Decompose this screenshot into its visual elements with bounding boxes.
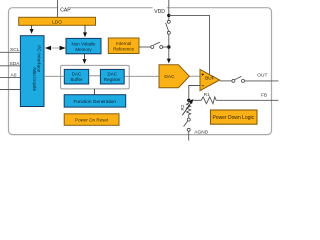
block Power On Reset	[64, 114, 119, 126]
arrowhead into I2C interface top	[30, 29, 34, 34]
wire container to DAC pentagon	[129, 75, 159, 77]
switch output (right circle)	[242, 79, 245, 82]
svg-text:Non Volatile: Non Volatile	[71, 42, 96, 47]
block Internal Reference	[108, 38, 139, 54]
wire I2C to DAC container	[44, 75, 61, 77]
switch internal reference (left circle)	[151, 46, 154, 49]
svg-text:A0: A0	[11, 73, 17, 79]
block I2C interface PMBus compatible	[20, 36, 44, 107]
node reference mux junction	[167, 45, 170, 48]
block LDO	[19, 17, 96, 25]
svg-text:I²C Interface: I²C Interface	[36, 45, 41, 73]
pin VDD label gap	[153, 5, 168, 14]
wire BUF feedback	[189, 86, 201, 101]
switch internal reference (right circle)	[160, 46, 163, 49]
svg-text:SCL: SCL	[10, 47, 20, 53]
switch VDD to DAC (lower circle)	[167, 31, 170, 34]
arrowhead into DAC top	[167, 59, 171, 64]
wire VDD switch to DAC arrow	[168, 34, 170, 59]
wire BUF output	[220, 80, 232, 82]
wire container right stub	[124, 75, 129, 77]
svg-text:OUT: OUT	[257, 73, 267, 79]
arrow through R2 (wiper)	[182, 103, 190, 115]
pin CAP label gap	[58, 4, 70, 13]
chip boundary	[9, 8, 272, 135]
block DAC Buffer	[64, 69, 88, 84]
wire DAC to BUF	[189, 75, 200, 77]
wire node to R1	[189, 99, 202, 101]
switch AGND (upper circle)	[187, 118, 190, 121]
svg-text:Power On Reset: Power On Reset	[75, 118, 109, 123]
wire VDD pin upper segment	[168, 0, 170, 20]
svg-text:AGND: AGND	[194, 129, 208, 135]
svg-text:DAC: DAC	[164, 74, 175, 80]
switch VDD to DAC (upper circle)	[167, 20, 170, 23]
svg-text:SDA: SDA	[10, 61, 21, 67]
svg-text:Reference: Reference	[113, 47, 134, 52]
switch VDD to DAC (blade)	[166, 23, 169, 31]
block Power Down Logic	[211, 110, 258, 124]
svg-text:LDO: LDO	[52, 20, 62, 26]
node VDD rail junction	[167, 14, 170, 17]
resistor R2 (adjustable)	[187, 100, 191, 118]
svg-text:DAC: DAC	[72, 71, 82, 76]
pin line SDA	[0, 65, 20, 67]
svg-text:BUF: BUF	[205, 75, 215, 80]
resistor R1	[201, 97, 216, 104]
wire to OUT pin	[245, 80, 279, 82]
block Non Volatile Memory	[66, 38, 101, 53]
wire R1 to FB pin	[216, 99, 278, 101]
svg-text:DAC: DAC	[108, 71, 118, 76]
pin line A1 (unlabeled)	[0, 89, 20, 91]
wire CAP pin	[57, 0, 59, 17]
wire LDO to I2C interface	[31, 25, 33, 29]
switch output (left circle)	[232, 79, 235, 82]
svg-text:Buffer: Buffer	[71, 77, 83, 82]
op-amp BUF	[200, 69, 220, 90]
wire container to Function Generation	[93, 89, 95, 95]
svg-text:R2: R2	[180, 104, 185, 110]
arrowhead into NVM top	[83, 32, 87, 37]
switch output (blade)	[235, 76, 242, 79]
svg-text:R1: R1	[204, 92, 210, 98]
svg-text:Register: Register	[104, 77, 121, 82]
wire LDO to NVM	[84, 25, 86, 32]
svg-text:Internal: Internal	[116, 41, 131, 46]
wire VDD rail to BUF supply	[169, 15, 210, 74]
wire reference switch to mux node	[163, 46, 169, 48]
pin line A0	[0, 77, 20, 79]
container DAC buffer/register	[61, 65, 130, 89]
svg-text:Memory: Memory	[75, 47, 92, 52]
svg-text:Power Down Logic: Power Down Logic	[212, 115, 254, 121]
block DAC Register	[100, 69, 124, 84]
switch AGND (lower circle)	[187, 128, 190, 131]
wire NVM to DAC block	[84, 54, 86, 59]
block Function Generation	[64, 95, 126, 107]
svg-text:VDD: VDD	[154, 9, 165, 15]
wire DAC Buffer to DAC Register	[89, 75, 101, 77]
switch internal reference (blade)	[154, 42, 161, 45]
node feedback junction	[187, 99, 190, 102]
bidirectional arrow I2C to NVM	[49, 47, 61, 49]
wire to AGND pin	[188, 131, 190, 140]
svg-text:Function Generation: Function Generation	[74, 99, 117, 104]
wire Internal Reference output	[139, 46, 151, 48]
switch AGND (blade)	[184, 121, 188, 127]
block DAC (pentagon)	[159, 65, 189, 88]
wire container left stub	[61, 75, 65, 77]
arrowhead into DAC container top	[83, 59, 87, 64]
svg-text:CAP: CAP	[60, 8, 71, 14]
pin line SCL	[0, 51, 20, 53]
svg-text:FB: FB	[261, 92, 267, 98]
